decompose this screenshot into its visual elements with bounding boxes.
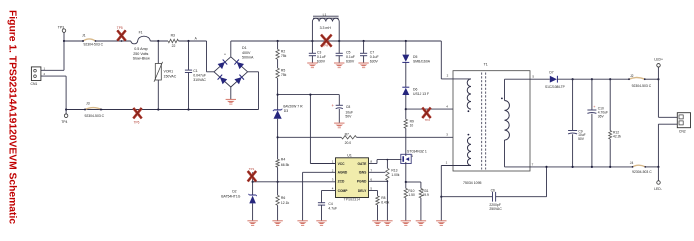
svg-text:6.49k: 6.49k [381,200,389,204]
svg-text:150VAC: 150VAC [164,75,177,79]
svg-text:C1: C1 [193,69,198,73]
svg-text:250 Volts: 250 Volts [133,52,148,56]
svg-text:C6: C6 [491,188,495,192]
svg-text:D7: D7 [549,71,553,75]
svg-text:92304-503 C: 92304-503 C [632,170,652,174]
svg-text:U1: U1 [347,153,352,157]
svg-text:COMP: COMP [338,189,349,193]
svg-text:630V: 630V [346,60,355,64]
svg-text:+: + [224,52,226,56]
svg-text:DELY: DELY [358,189,367,193]
svg-text:1.50: 1.50 [408,193,415,197]
svg-text:PGND: PGND [357,180,367,184]
svg-text:Slow-Blow: Slow-Blow [133,57,151,61]
svg-text:49.9: 49.9 [422,193,429,197]
svg-text:R6: R6 [281,196,285,200]
svg-text:R4: R4 [281,157,285,161]
svg-text:F1: F1 [139,30,143,34]
svg-text:S1C2108/LTP: S1C2108/LTP [545,85,565,89]
svg-text:Figure 1. TPS92314A19120VEVM S: Figure 1. TPS92314A19120VEVM Schematic [7,10,18,224]
svg-text:75k: 75k [281,73,287,77]
svg-text:C7: C7 [370,50,375,54]
svg-text:20.0: 20.0 [345,141,352,145]
svg-text:630V: 630V [370,60,379,64]
svg-text:BAT54HT1G: BAT54HT1G [221,194,241,198]
svg-text:D1: D1 [242,46,247,50]
svg-text:D2: D2 [232,190,236,194]
svg-text:LED+: LED+ [654,58,663,62]
svg-text:R3: R3 [171,33,175,37]
svg-text:0.1uF: 0.1uF [370,55,379,59]
svg-text:VCC: VCC [338,162,346,166]
svg-text:36V: 36V [598,114,605,118]
svg-text:R2: R2 [281,50,285,54]
svg-text:0.1uF: 0.1uF [346,55,355,59]
svg-text:75034 1095: 75034 1095 [463,181,482,185]
svg-text:22: 22 [172,44,176,48]
svg-text:10: 10 [410,124,414,128]
svg-text:LED-: LED- [654,187,662,191]
svg-text:50V: 50V [345,115,352,119]
svg-text:0.1uF: 0.1uF [317,55,326,59]
svg-text:0.5 Amp: 0.5 Amp [134,47,148,51]
svg-text:92304-503 C: 92304-503 C [85,114,105,118]
svg-text:CN1: CN1 [31,82,38,86]
svg-text:C8: C8 [346,105,350,109]
svg-text:50V: 50V [578,137,585,141]
svg-text:TP4: TP4 [61,120,67,124]
svg-text:630V: 630V [317,60,326,64]
svg-text:310VAC: 310VAC [193,78,206,82]
svg-text:0.047uF: 0.047uF [193,74,206,78]
svg-text:ST034N3Z 1: ST034N3Z 1 [407,149,427,153]
svg-text:TP2: TP2 [425,118,431,122]
svg-text:3.3 mH: 3.3 mH [320,26,332,30]
svg-text:US1J 13 F: US1J 13 F [413,92,429,96]
svg-text:AGND: AGND [338,171,348,175]
svg-text:6AV20W 7 R: 6AV20W 7 R [283,104,303,108]
svg-text:ISNS: ISNS [359,171,367,175]
svg-text:75k: 75k [281,54,287,58]
svg-text:TP3: TP3 [58,25,64,29]
svg-text:4.7uF: 4.7uF [328,207,337,211]
svg-text:VOR1: VOR1 [164,69,174,73]
svg-text:D3: D3 [284,109,288,113]
svg-text:SMBJ160A: SMBJ160A [413,60,431,64]
svg-text:R8: R8 [381,196,385,200]
svg-text:R5: R5 [281,69,285,73]
svg-text:C3: C3 [317,50,322,54]
svg-text:GATE: GATE [357,162,367,166]
svg-text:400V: 400V [242,51,251,55]
svg-text:42.2k: 42.2k [613,135,621,139]
svg-text:R7: R7 [345,132,349,136]
svg-text:92304-503 C: 92304-503 C [84,43,104,47]
svg-text:J2: J2 [630,74,634,78]
svg-text:J3: J3 [86,101,90,105]
svg-text:C4: C4 [328,202,332,206]
svg-text:T1: T1 [484,62,488,66]
svg-text:TP5: TP5 [117,26,123,30]
svg-text:TP8: TP8 [323,43,329,47]
svg-text:CN2: CN2 [679,129,686,133]
svg-text:D5: D5 [413,55,417,59]
svg-text:J1: J1 [82,33,86,37]
svg-text:92304-503 C: 92304-503 C [632,84,652,88]
svg-text:TP6: TP6 [134,121,140,125]
svg-text:TP1: TP1 [249,167,255,171]
svg-text:1.00k: 1.00k [391,173,399,177]
svg-text:10uF: 10uF [345,110,353,114]
svg-text:250VAC: 250VAC [489,207,502,211]
svg-text:500mA: 500mA [242,55,254,59]
svg-text:L1: L1 [323,13,327,17]
svg-text:C5: C5 [346,50,351,54]
svg-text:J4: J4 [630,161,634,165]
svg-text:TPS92314: TPS92314 [344,197,361,201]
svg-text:-: - [224,87,225,91]
svg-text:12.1k: 12.1k [281,201,290,205]
svg-text:ZCD: ZCD [338,180,345,184]
svg-text:66.5k: 66.5k [281,163,290,167]
